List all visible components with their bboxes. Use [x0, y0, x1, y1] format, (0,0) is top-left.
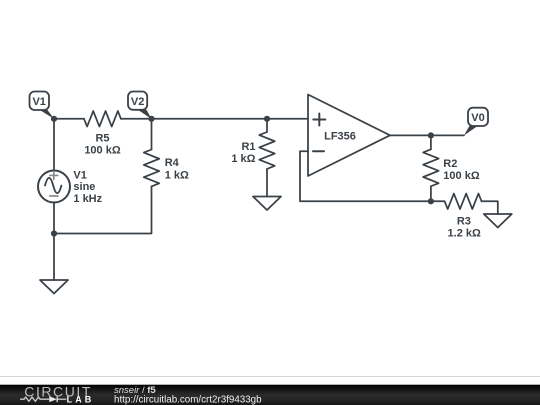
node label V0 pointer [464, 126, 478, 135]
ground under R1 [253, 197, 281, 211]
svg-text:LF356: LF356 [324, 131, 356, 143]
wire node C to op-amp + input [267, 118, 308, 120]
svg-text:V1: V1 [32, 96, 45, 108]
ground under source [40, 280, 68, 294]
wire node C down to R1 [266, 119, 268, 132]
node label V1 box [30, 92, 50, 111]
node D junction dot [51, 230, 57, 236]
footer logo schematic line with resistor and diode [20, 396, 66, 402]
svg-text:1 kΩ: 1 kΩ [231, 153, 255, 165]
wire R1 to ground [266, 169, 268, 197]
node V2 junction dot [148, 116, 154, 122]
label R1 [231, 141, 255, 165]
node label V2 pointer [138, 110, 152, 119]
svg-text:LAB: LAB [67, 395, 95, 405]
svg-text:V1: V1 [73, 169, 86, 181]
wire node D to ground [53, 234, 55, 281]
voltage source V1 plus sign [50, 171, 58, 179]
svg-text:R4: R4 [165, 157, 180, 169]
footer logo diode triangle [49, 396, 57, 402]
footer bar [0, 385, 540, 405]
wire node V2 to node C [152, 118, 268, 120]
svg-text:sine: sine [73, 181, 95, 193]
svg-text:1 kΩ: 1 kΩ [165, 169, 189, 181]
svg-text:1.2 kΩ: 1.2 kΩ [448, 227, 481, 239]
op-amp plus input symbol [313, 114, 325, 126]
voltage source V1 circle [38, 171, 70, 203]
node C junction dot [264, 116, 270, 122]
label R4 [165, 157, 189, 181]
wire R5 to node V2 [121, 118, 152, 120]
resistor R4 [144, 150, 160, 187]
wire R4 bottom to bottom rail [54, 186, 152, 233]
svg-text:R5: R5 [95, 133, 109, 145]
label R2 [443, 158, 480, 182]
node F junction dot [428, 198, 434, 204]
wire node F to R3 [431, 200, 445, 202]
op-amp U1 triangle [308, 95, 390, 177]
svg-text:100 kΩ: 100 kΩ [84, 145, 121, 157]
wire V1 node down to source [53, 119, 55, 171]
voltage source V1 sine wave [45, 178, 61, 193]
node E junction dot [428, 132, 434, 138]
wire V2 node down to R4 [151, 119, 153, 150]
ground under R3 [484, 214, 512, 228]
label R3 [448, 215, 481, 239]
node label V2 box [128, 92, 147, 110]
label V1 source [73, 169, 102, 205]
svg-text:R2: R2 [443, 158, 457, 170]
node label V1 pointer [40, 110, 54, 119]
resistor R2 [423, 149, 439, 186]
wire output node down to R2 [430, 135, 432, 149]
resistor R1 [259, 132, 275, 169]
wire node V1 to R5 [54, 118, 84, 120]
wire R2 bottom to node F [430, 186, 432, 201]
svg-text:100 kΩ: 100 kΩ [443, 170, 480, 182]
wire R3 to ground [482, 201, 498, 214]
node label V0 box [468, 108, 488, 126]
svg-text:R3: R3 [457, 215, 471, 227]
svg-text:V2: V2 [131, 96, 144, 108]
svg-text:V0: V0 [471, 112, 484, 124]
wire op-amp output [390, 134, 464, 136]
label R5 [84, 133, 121, 157]
voltage source V1 minus sign [50, 195, 58, 197]
svg-text:1 kHz: 1 kHz [73, 193, 102, 205]
canvas bottom border hairline [0, 376, 540, 378]
wire op-amp minus input feedback [300, 151, 431, 201]
op-amp minus input symbol [313, 150, 324, 152]
svg-text:http://circuitlab.com/crt2r3f9: http://circuitlab.com/crt2r3f9433gb [114, 394, 262, 405]
wire source bottom to node D [53, 203, 55, 234]
resistor R5 [84, 111, 121, 127]
svg-text:R1: R1 [241, 141, 255, 153]
resistor R3 [445, 194, 482, 210]
node A junction dot [51, 116, 57, 122]
